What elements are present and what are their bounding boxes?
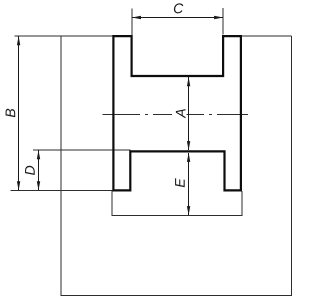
label B [6, 109, 16, 117]
label A [175, 106, 187, 120]
extension line C right [222, 8, 224, 35]
extension line top (for B) [15, 35, 114, 37]
extension line bottom (for B and D) [11, 190, 113, 192]
label C [174, 3, 183, 13]
extension line C left [131, 9, 133, 36]
dimension line B [17, 36, 20, 190]
spool body outline (thick) [113, 36, 240, 190]
extension line for D top [33, 149, 131, 151]
dimension line A [187, 77, 190, 150]
centerline (dash-dot) [103, 113, 248, 115]
label D [25, 166, 35, 175]
dimension line D [37, 150, 40, 190]
label E [175, 178, 185, 187]
dimension line C [132, 16, 223, 19]
outer boundary box [61, 36, 292, 295]
lower projection rectangle [112, 191, 242, 216]
dimension line E [187, 153, 190, 215]
